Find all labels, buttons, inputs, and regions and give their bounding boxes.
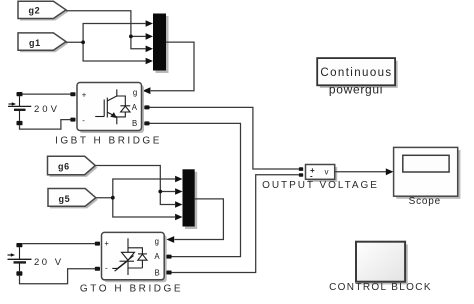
svg-text:g: g bbox=[133, 88, 137, 97]
svg-text:20V: 20V bbox=[34, 104, 60, 115]
GTO icon inside bbox=[112, 238, 147, 275]
from tag g5 bbox=[48, 189, 98, 209]
wire B2 minus to GTO minus bbox=[20, 269, 95, 284]
wire g5 to junction bbox=[96, 197, 113, 199]
svg-text:g2: g2 bbox=[29, 6, 41, 16]
port square IGBT A bbox=[144, 105, 149, 109]
svg-text:Continuous: Continuous bbox=[320, 67, 392, 79]
block GTO H BRIDGE bbox=[102, 232, 167, 282]
wire branch mux M1 input 2 bbox=[131, 35, 146, 37]
block CONTROL BLOCK bbox=[329, 242, 432, 294]
port square voltmeter plus bbox=[299, 167, 303, 171]
dc source B2 20V bbox=[8, 243, 64, 276]
svg-text:B: B bbox=[155, 269, 160, 278]
wire voltmeter to scope bbox=[335, 171, 386, 173]
mux M1 input arrow 1 bbox=[146, 20, 153, 27]
mux M2 bbox=[183, 169, 198, 229]
port square GTO plus bbox=[95, 242, 100, 246]
block Scope bbox=[394, 147, 461, 207]
svg-text:-: - bbox=[82, 116, 85, 125]
svg-text:-: - bbox=[105, 264, 108, 273]
junction on g6 wire bbox=[158, 190, 162, 194]
mux M1 input arrow 2 bbox=[146, 33, 153, 40]
from tag g6 bbox=[48, 156, 98, 177]
svg-text:A: A bbox=[132, 103, 138, 112]
svg-text:powergui: powergui bbox=[329, 83, 383, 97]
svg-text:OUTPUT VOLTAGE: OUTPUT VOLTAGE bbox=[262, 180, 379, 191]
port square GTO A bbox=[166, 255, 171, 259]
svg-text:20 V: 20 V bbox=[34, 257, 64, 268]
wire branch mux M1 input 4 bbox=[83, 42, 146, 61]
svg-text:CONTROL BLOCK: CONTROL BLOCK bbox=[329, 282, 432, 293]
wire branch mux M2 input 1 bbox=[113, 179, 176, 198]
wire B1 plus to IGBT plus bbox=[23, 93, 71, 95]
from tag g1 bbox=[18, 33, 68, 52]
voltage measurement block bbox=[306, 165, 338, 182]
svg-text:g1: g1 bbox=[29, 38, 41, 48]
wire B2 plus to GTO plus bbox=[22, 243, 95, 245]
arrow into scope bbox=[386, 168, 394, 175]
mux M2 input arrow 3 bbox=[175, 201, 182, 208]
svg-text:IGBT H BRIDGE: IGBT H BRIDGE bbox=[55, 136, 162, 147]
svg-text:g5: g5 bbox=[59, 194, 71, 204]
wire B1 minus to IGBT minus bbox=[20, 120, 71, 130]
IGBT icon inside bbox=[95, 89, 130, 124]
wire branch mux M2 input 4 bbox=[113, 198, 176, 217]
wire mux M1 output to IGBT gate bbox=[151, 42, 194, 91]
wire branch mux M2 input 2 bbox=[160, 191, 175, 193]
mux M2 input arrow 4 bbox=[175, 214, 182, 221]
wire GTO B to voltmeter minus bbox=[172, 175, 299, 273]
port square GTO B bbox=[166, 271, 171, 275]
port square voltmeter minus bbox=[299, 173, 303, 177]
mux M1 input arrow 4 bbox=[146, 58, 153, 65]
wire IGBT A to voltmeter plus bbox=[150, 107, 299, 169]
port square IGBT plus bbox=[70, 92, 75, 96]
svg-text:v: v bbox=[325, 167, 329, 176]
block powergui Continuous bbox=[317, 58, 397, 97]
wire IGBT B to GTO A bbox=[150, 123, 241, 256]
mux M2 input arrow 1 bbox=[175, 176, 182, 183]
svg-text:+: + bbox=[82, 91, 87, 100]
wire mux M2 output to GTO gate bbox=[174, 199, 223, 240]
arrow into GTO g input bbox=[166, 236, 174, 243]
arrow into IGBT g input bbox=[143, 87, 151, 94]
wire g1 to junction bbox=[66, 41, 83, 43]
svg-text:A: A bbox=[154, 252, 160, 261]
junction on g1 wire bbox=[81, 40, 85, 44]
wire g6 to mux M2 inputs 2,3 bbox=[95, 166, 175, 205]
svg-text:g6: g6 bbox=[58, 162, 70, 172]
mux M1 bbox=[153, 14, 169, 74]
svg-text:GTO H BRIDGE: GTO H BRIDGE bbox=[80, 284, 183, 295]
port square GTO minus bbox=[95, 267, 100, 271]
wire branch mux M1 input 1 bbox=[83, 24, 146, 43]
junction on g5 wire bbox=[111, 196, 115, 200]
port square IGBT B bbox=[144, 121, 149, 125]
from tag g2 bbox=[18, 1, 68, 20]
svg-text:B: B bbox=[132, 119, 137, 128]
junction on g2 wire bbox=[129, 35, 133, 39]
port square IGBT minus bbox=[70, 118, 75, 122]
svg-text:Scope: Scope bbox=[409, 196, 441, 207]
svg-text:+: + bbox=[104, 239, 109, 248]
dc source B1 20V bbox=[8, 92, 60, 125]
mux M1 input arrow 3 bbox=[146, 46, 153, 53]
mux M2 input arrow 2 bbox=[175, 188, 182, 195]
svg-text:g: g bbox=[155, 237, 159, 246]
block IGBT H BRIDGE bbox=[77, 83, 144, 134]
wire g2 to mux M1 inputs 2,3 bbox=[66, 11, 146, 49]
